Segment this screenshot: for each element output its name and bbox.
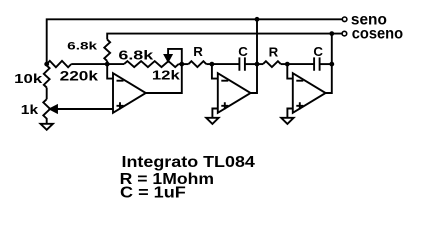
wire node D to R xyxy=(257,63,263,65)
wire inverting input op-amp 2 xyxy=(212,64,218,79)
node seno tap junction dot xyxy=(255,17,260,22)
svg-text:Integrato TL084: Integrato TL084 xyxy=(122,154,256,171)
wire inverting input op-amp 1 xyxy=(107,64,113,79)
svg-text:C = 1uF: C = 1uF xyxy=(120,185,186,202)
svg-text:C: C xyxy=(313,44,323,59)
ground G2 op-amp 2 xyxy=(206,118,218,124)
op-amp U1 section 1 triangle xyxy=(113,73,146,113)
node coseno tap junction dot xyxy=(329,31,334,36)
wire node E to capacitor C2 xyxy=(287,63,314,65)
resistor R2 6.8k vertical feedback zigzag xyxy=(104,40,110,62)
op-amp 2 minus sign xyxy=(221,80,228,82)
wire op-amp 1 output to node B xyxy=(146,64,182,93)
wire zigzag to node B xyxy=(179,63,182,65)
wire inverting input op-amp 3 xyxy=(287,64,293,79)
wire node B to R xyxy=(182,63,189,65)
svg-text:1k: 1k xyxy=(21,102,39,117)
wire C1 to node D xyxy=(245,63,257,65)
node D op2 output junction dot xyxy=(255,62,260,67)
svg-text:6.8k: 6.8k xyxy=(67,40,98,52)
wiper arrow of 12k pot xyxy=(165,55,172,61)
ground G1 under 1k pot xyxy=(41,124,53,130)
node A inverting op1 junction dot xyxy=(105,62,110,67)
node A1 rail/220k/10k junction dot xyxy=(44,62,49,67)
svg-text:220k: 220k xyxy=(60,68,99,83)
wire op-amp 2 output up to seno line xyxy=(251,19,257,93)
svg-text:coseno: coseno xyxy=(352,25,404,42)
wire R to node C xyxy=(206,63,212,65)
svg-text:R: R xyxy=(193,44,203,59)
svg-text:10k: 10k xyxy=(14,71,43,86)
wire op-amp 3 + input to ground xyxy=(287,109,292,118)
wire coseno line xyxy=(107,34,342,40)
svg-text:12k: 12k xyxy=(152,68,181,83)
capacitor C2 (1uF) plates xyxy=(314,57,320,70)
op-amp 3 minus sign xyxy=(296,80,303,82)
potentiometer R4 1k zigzag xyxy=(43,99,50,124)
capacitor C1 (1uF) plates xyxy=(239,57,245,70)
ground G3 op-amp 3 xyxy=(281,118,293,124)
resistor R8 R (1Mohm) xyxy=(263,61,281,67)
svg-text:C: C xyxy=(238,44,248,59)
wire C2 to node F xyxy=(320,63,332,65)
wiper arrow of 1k pot xyxy=(50,105,57,112)
output terminal coseno circle xyxy=(342,31,347,36)
node E inverting op3 junction dot xyxy=(285,62,290,67)
output terminal seno circle xyxy=(342,17,347,22)
wire 220k to node A xyxy=(71,63,107,65)
wire seno line + left feedback rail xyxy=(47,19,343,64)
resistor R3 10k vertical xyxy=(44,66,50,88)
node F op3 output junction dot xyxy=(329,62,334,67)
wire 12k wiper bracket to node B xyxy=(168,49,182,64)
wire node C to capacitor C1 xyxy=(212,63,240,65)
svg-text:6.8k: 6.8k xyxy=(118,47,154,62)
op-amp 2 plus sign xyxy=(221,102,228,109)
op-amp 1 plus sign xyxy=(117,102,124,109)
svg-text:R: R xyxy=(269,45,279,60)
wire op-amp 3 output up to coseno line xyxy=(326,34,332,93)
wire R to node E xyxy=(281,63,288,65)
resistor R5 6.8k + potentiometer R6 12k series zigzag xyxy=(124,61,179,67)
wire op-amp 2 + input to ground xyxy=(212,109,217,118)
op-amp U1 section 2 triangle xyxy=(218,73,251,113)
wire 10k to 1k xyxy=(46,88,48,100)
resistor R7 R (1Mohm) xyxy=(189,61,207,67)
wire node A to zigzag xyxy=(107,63,124,65)
op-amp U1 section 3 triangle xyxy=(293,73,326,113)
op-amp 3 plus sign xyxy=(296,102,303,109)
resistor R1 220k xyxy=(47,61,71,67)
wire 1k wiper to op-amp U1 + input xyxy=(57,108,114,110)
op-amp 1 minus sign xyxy=(117,80,124,82)
node B op1 output junction dot xyxy=(179,62,184,67)
wire 6.8k bottom lead xyxy=(106,61,108,64)
node C inverting op2 junction dot xyxy=(210,62,215,67)
